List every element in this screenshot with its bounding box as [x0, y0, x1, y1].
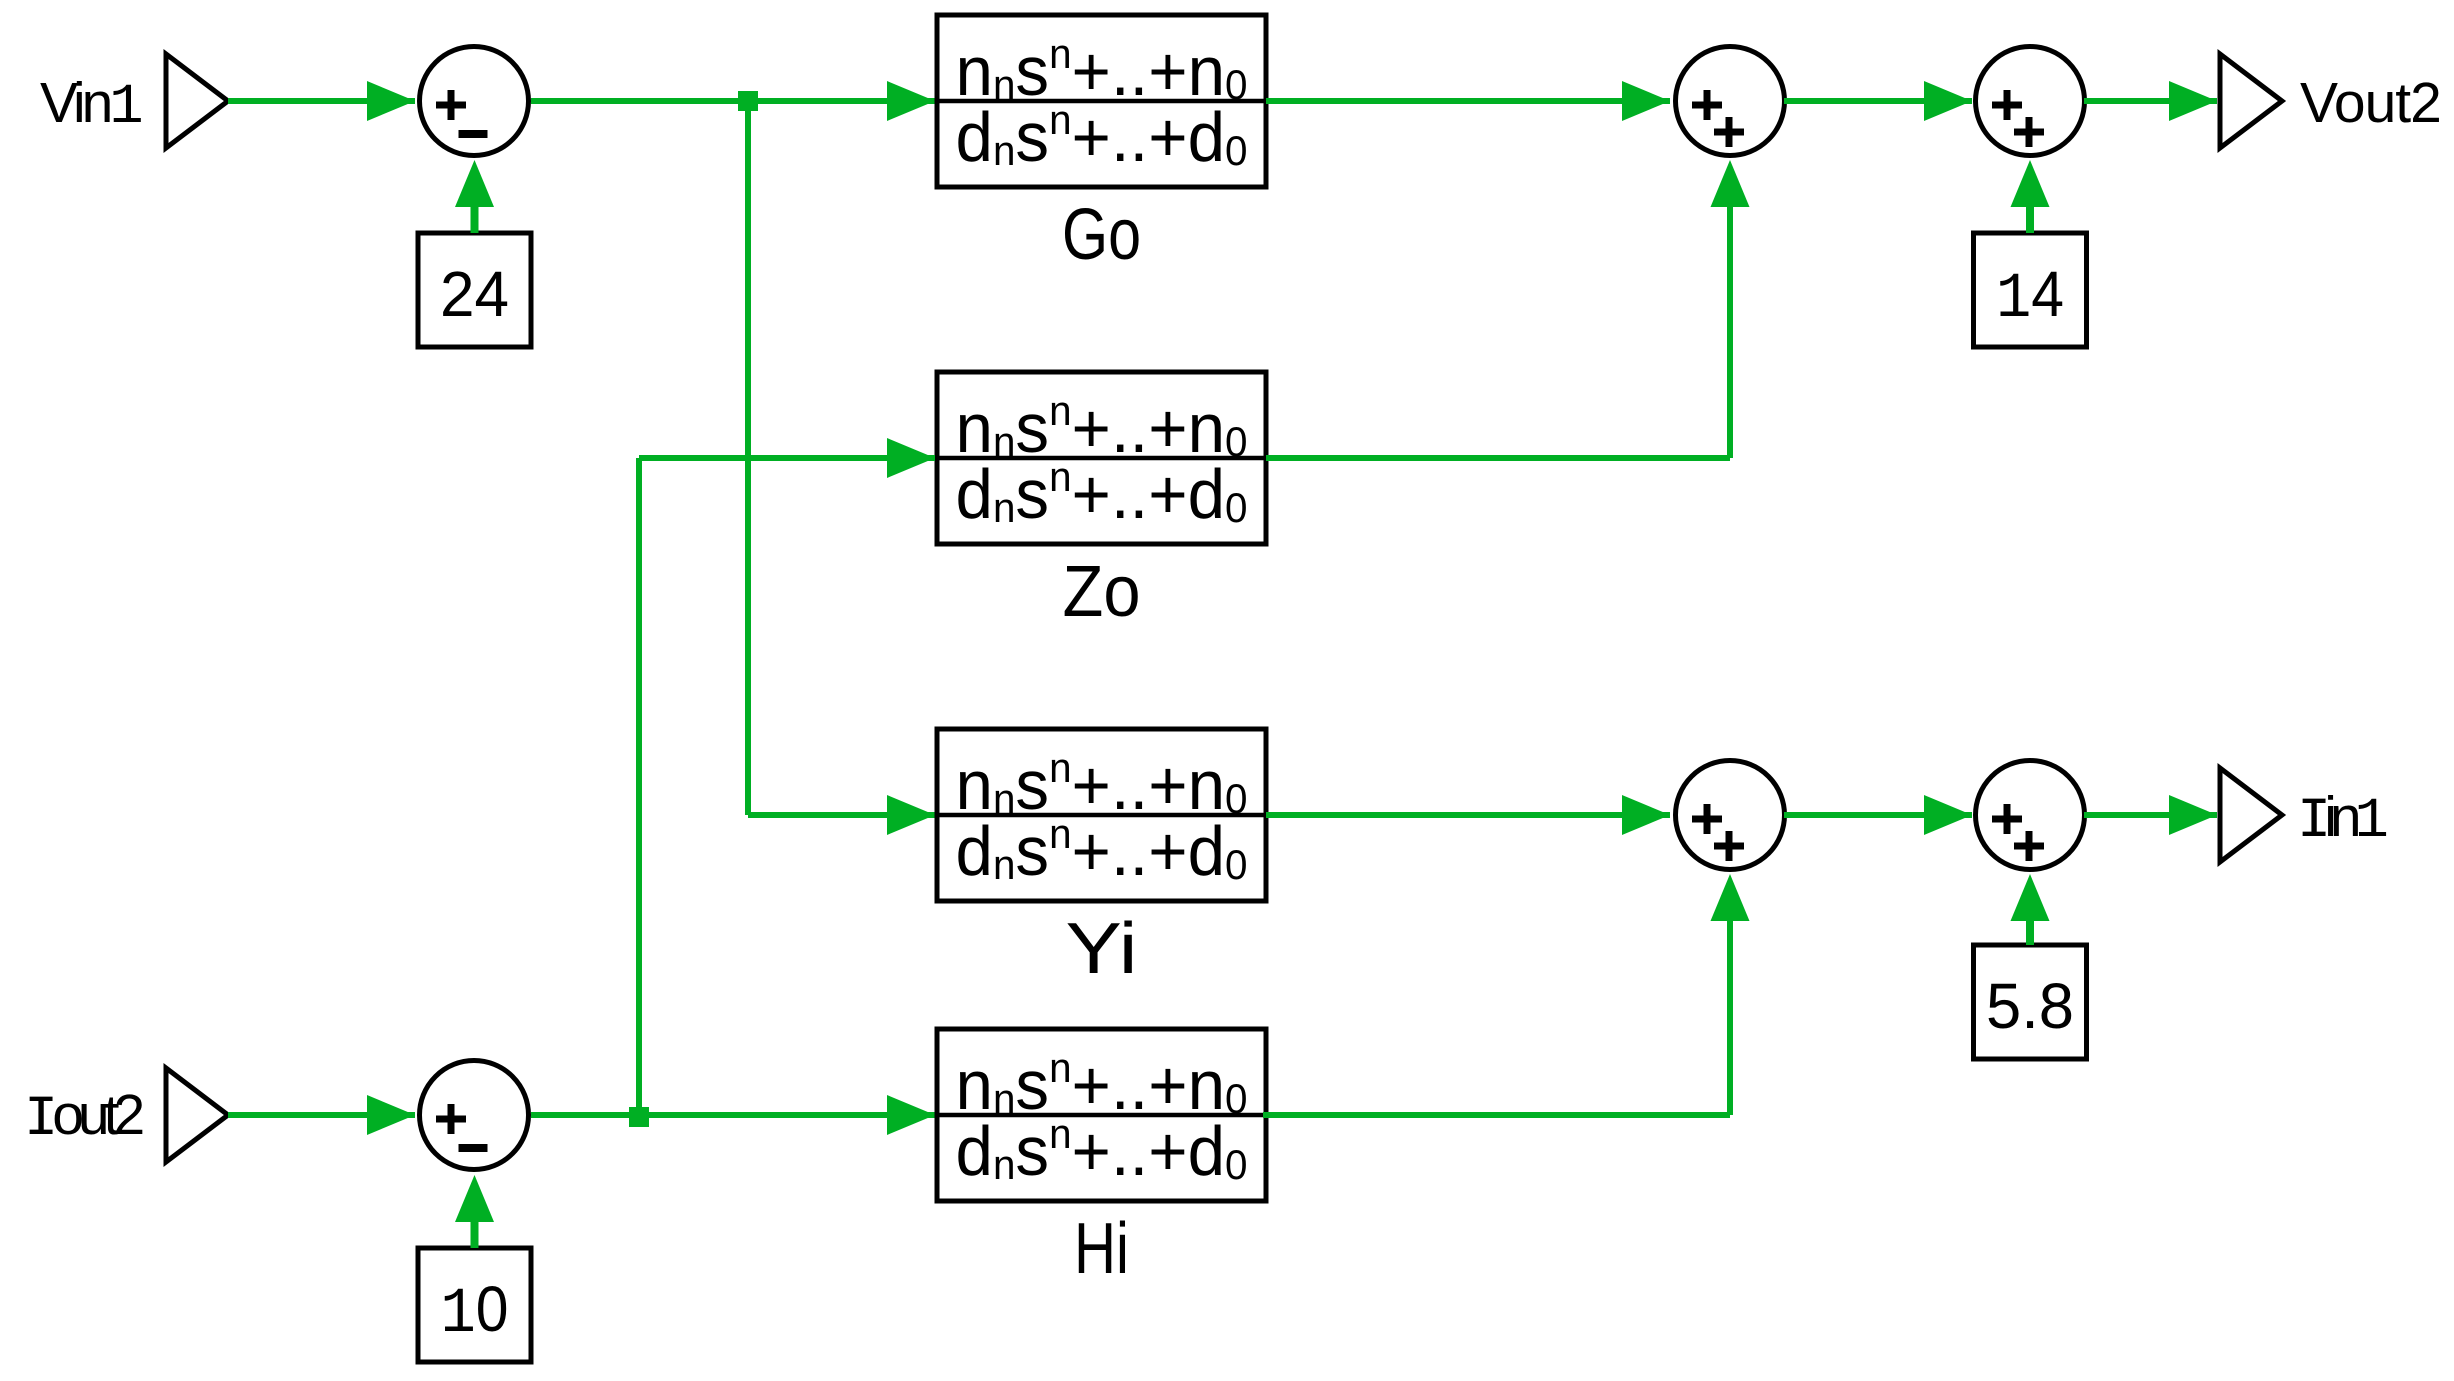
wire S6 to Iin1 port: [2084, 795, 2217, 835]
wire Go to summer S2: [1266, 81, 1670, 121]
output port Iin1 (triangle): [2220, 768, 2282, 862]
wire Hi output to S5 bottom: [1263, 874, 1750, 1118]
wire 5.8 to S6: [2011, 874, 2050, 945]
svg-text:14: 14: [1996, 258, 2064, 336]
summing junction S1 (+,-): [420, 47, 529, 156]
wire node A down to Yi row: [745, 101, 751, 815]
node: output port Vout2 label: [2300, 71, 2441, 135]
svg-text:24: 24: [440, 258, 509, 330]
wire 10 to S4: [455, 1175, 494, 1248]
wire S5 to summer S6: [1784, 795, 1972, 835]
wire node B up to Zo row: [636, 458, 642, 1115]
wire 24 to S1: [455, 160, 494, 233]
wire S4 to node B and Hi input: [531, 1095, 935, 1135]
input port Vin1 (triangle): [166, 54, 228, 148]
transfer function Go: [937, 15, 1266, 275]
svg-text:Zo: Zo: [1063, 552, 1141, 632]
svg-text:Go: Go: [1062, 195, 1141, 275]
svg-text:Vin1: Vin1: [40, 71, 141, 140]
transfer function Zo: [937, 372, 1266, 632]
svg-text:Hi: Hi: [1074, 1209, 1129, 1289]
svg-text:10: 10: [441, 1273, 509, 1351]
constant block 14: [1974, 233, 2087, 347]
summing junction S2 (+,+): [1676, 47, 1785, 156]
summing junction S3 (+,+): [1976, 47, 2085, 156]
summing junction S5 (+,+): [1676, 761, 1785, 870]
node: output port Iin1 label: [2297, 785, 2387, 854]
svg-text:Iin1: Iin1: [2297, 785, 2387, 854]
transfer function Hi: [937, 1029, 1266, 1289]
output port Vout2 (triangle): [2220, 54, 2282, 148]
svg-text:Vout2: Vout2: [2300, 71, 2441, 135]
svg-text:5.8: 5.8: [1986, 970, 2074, 1042]
wire Iout2 to summer S4: [228, 1095, 415, 1135]
node A (junction dot): [738, 91, 758, 111]
svg-text:Iout2: Iout2: [24, 1083, 142, 1152]
summing junction S4 (+,-): [420, 1061, 529, 1170]
wire Vin1 to summer S1: [228, 81, 415, 121]
node: input port Vin1 label: [40, 71, 141, 140]
wire Zo output to S2 bottom: [1266, 160, 1750, 461]
transfer function Yi: [937, 729, 1266, 989]
wire S3 to Vout2 port: [2084, 81, 2217, 121]
constant block 24: [418, 233, 531, 347]
node B (junction dot): [629, 1107, 649, 1127]
node: input port Iout2 label: [24, 1083, 142, 1152]
wire node B corner to Zo input: [639, 438, 935, 478]
wire to Yi input: [748, 795, 935, 835]
input port Iout2 (triangle): [166, 1068, 228, 1162]
wire 14 to S3: [2011, 160, 2050, 233]
wire Yi to summer S5: [1266, 795, 1670, 835]
constant block 5.8: [1974, 945, 2087, 1059]
wire S1 to node A and Go input: [531, 81, 935, 121]
constant block 10: [418, 1248, 531, 1362]
svg-text:Yi: Yi: [1066, 909, 1138, 989]
wire S2 to summer S3: [1784, 81, 1972, 121]
summing junction S6 (+,+): [1976, 761, 2085, 870]
